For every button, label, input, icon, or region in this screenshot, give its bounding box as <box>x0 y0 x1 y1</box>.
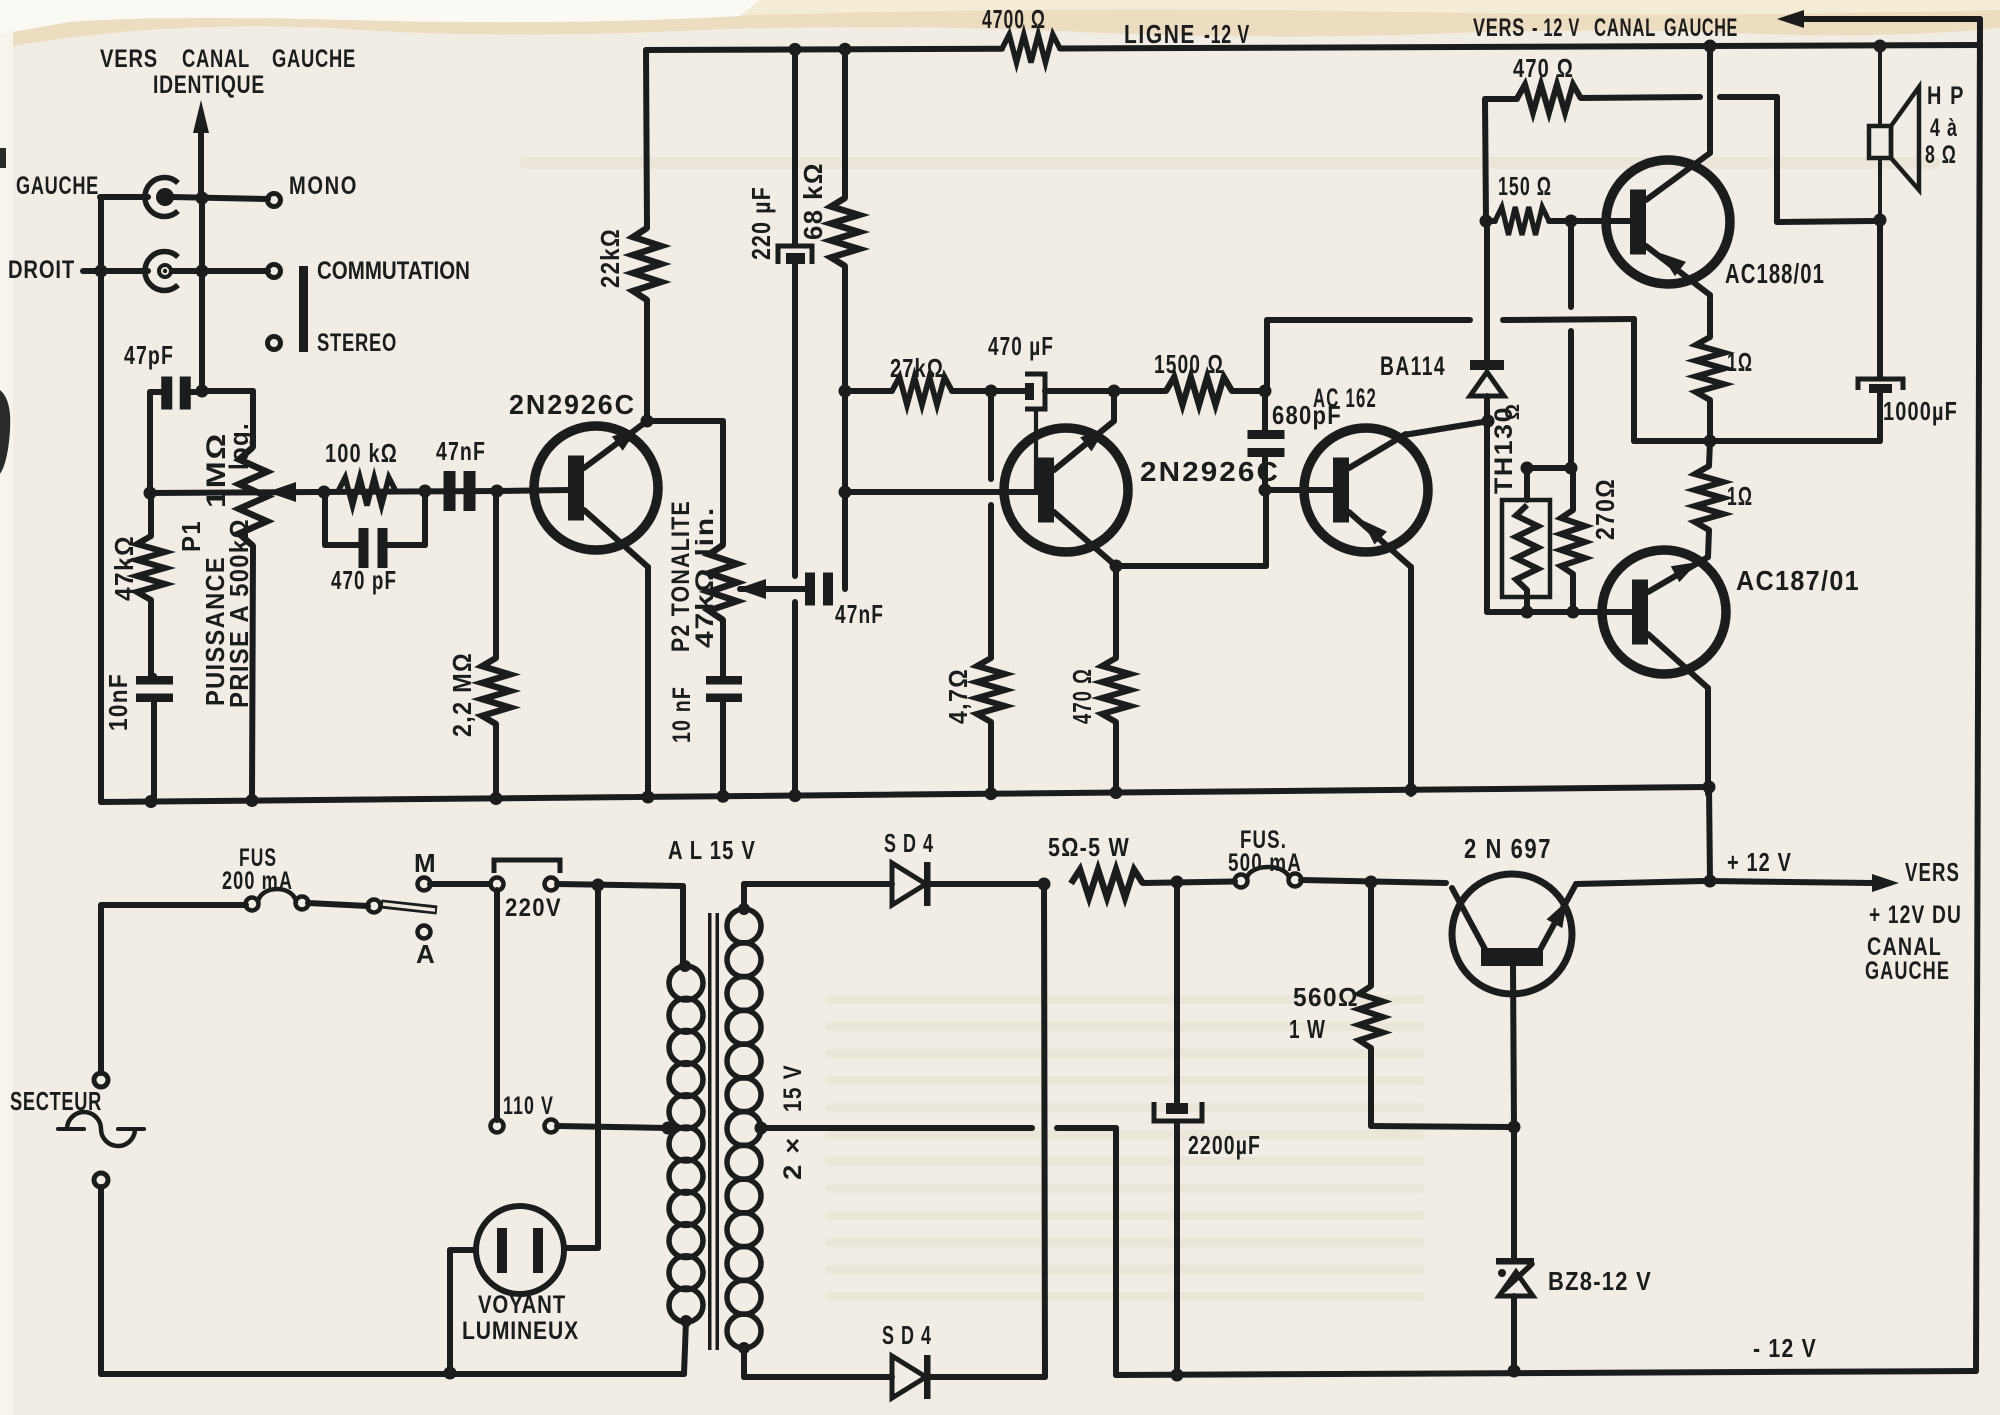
capacitor 470pF <box>325 491 425 595</box>
resistor 2.2M <box>447 491 510 799</box>
wire 2N697 base lead <box>1513 966 1514 1127</box>
label LIGNE -12V <box>1124 19 1250 49</box>
net label VERS CANAL GAUCHE IDENTIQUE <box>100 45 356 99</box>
junction Q2 emitter node <box>1110 560 1123 573</box>
svg-text:S D 4: S D 4 <box>882 1320 932 1350</box>
svg-text:GAUCHE: GAUCHE <box>16 172 99 200</box>
svg-text:H P: H P <box>1927 82 1965 110</box>
svg-text:+ 12 V: + 12 V <box>1727 847 1792 877</box>
label 2x15V <box>779 1064 807 1180</box>
svg-text:BZ8-12 V: BZ8-12 V <box>1548 1266 1652 1296</box>
svg-text:CANAL: CANAL <box>182 45 250 73</box>
junction 100k right <box>419 485 432 498</box>
junction Q1 base node <box>491 485 504 498</box>
resistor 22k <box>595 50 661 300</box>
svg-text:P1: P1 <box>176 520 206 552</box>
wire 27k to 470uF <box>952 388 1025 394</box>
junction +12V node <box>1704 875 1717 888</box>
node GAUCHE input wire <box>16 172 148 272</box>
bus junction 2.2M <box>490 792 503 805</box>
svg-text:470 pF: 470 pF <box>331 565 397 595</box>
wire P1 bottom <box>252 546 253 800</box>
wire rectifier link <box>1044 884 1045 1377</box>
wire zener lead <box>1511 1127 1517 1258</box>
junction bias bottom left <box>1521 606 1534 619</box>
svg-text:BA114: BA114 <box>1380 351 1446 381</box>
svg-text:VERS: VERS <box>100 45 158 73</box>
svg-text:+ 12V DU: + 12V DU <box>1869 901 1962 929</box>
junction MONO wire <box>196 192 209 205</box>
resistor 27k <box>890 353 952 405</box>
junction speaker bottom <box>1874 214 1887 227</box>
junction 2200uF bottom <box>1171 1369 1184 1382</box>
junction Q2 collector top <box>1108 385 1121 398</box>
transistor AC187/01 <box>1602 550 1860 794</box>
svg-text:220 µF: 220 µF <box>746 186 776 260</box>
resistor 4700 <box>982 4 1060 63</box>
junction DROIT-stereo wire <box>196 265 209 278</box>
connector GAUCHE RCA jack <box>145 177 268 216</box>
svg-text:- 12 V: - 12 V <box>1753 1333 1817 1363</box>
svg-text:GAUCHE: GAUCHE <box>1865 957 1950 985</box>
wire main signal line <box>150 491 497 493</box>
wire bias top link <box>1527 465 1571 471</box>
svg-text:1Ω: 1Ω <box>1727 347 1753 377</box>
wire +12V output <box>1710 847 1899 892</box>
junction AC188 base node <box>1565 215 1578 228</box>
svg-text:2200µF: 2200µF <box>1188 1130 1261 1160</box>
wire feedback line <box>1267 319 1634 441</box>
resistor 470 top <box>1485 53 1874 222</box>
svg-text:2N2926C: 2N2926C <box>1140 456 1280 487</box>
net label VERS -12V CANAL GAUCHE <box>1473 14 1738 42</box>
capacitor 47nF tone <box>805 573 884 630</box>
svg-text:GAUCHE: GAUCHE <box>272 45 356 73</box>
capacitor 10nF input <box>103 673 173 801</box>
svg-text:IDENTIQUE: IDENTIQUE <box>153 71 265 99</box>
wire to volume pot top <box>202 391 253 447</box>
svg-text:4700 Ω: 4700 Ω <box>982 4 1046 34</box>
junction primary tap <box>662 1122 675 1135</box>
resistor 560 1W <box>1289 882 1508 1127</box>
resistor 47k <box>109 493 165 676</box>
junction input node <box>196 385 209 398</box>
junction output node <box>1704 435 1717 448</box>
bus junction 47k <box>145 795 158 808</box>
speaker HP <box>1869 46 1965 220</box>
resistor 5ohm 5W <box>1048 832 1235 898</box>
svg-text:10nF: 10nF <box>103 673 133 731</box>
svg-text:VERS: VERS <box>1905 857 1960 887</box>
svg-text:LUMINEUX: LUMINEUX <box>462 1317 579 1345</box>
wire Q1 collector to P2 top <box>647 421 723 545</box>
svg-text:470 µF: 470 µF <box>988 331 1054 361</box>
resistor 270 <box>1561 468 1620 612</box>
junction 68k-27k node <box>839 385 852 398</box>
wire 470uF to 1500 <box>1114 388 1166 394</box>
resistor 100k <box>325 438 398 506</box>
switch commutation bar <box>299 266 308 352</box>
transformer secondary winding <box>727 903 761 1354</box>
junction HP rail <box>1874 40 1887 53</box>
wire input column <box>101 197 202 802</box>
svg-text:Ω: Ω <box>1502 404 1524 420</box>
wire amp ground bus <box>101 787 1709 802</box>
junction 220uF top <box>789 43 802 56</box>
wire Q2 emitter to AC162 base <box>1116 491 1266 566</box>
wire secondary bottom <box>744 1348 892 1377</box>
svg-text:2N2926C: 2N2926C <box>509 389 636 420</box>
capacitor 47nF coupling <box>436 436 486 511</box>
svg-text:100 kΩ: 100 kΩ <box>325 438 398 468</box>
svg-text:470 Ω: 470 Ω <box>1513 53 1574 83</box>
resistor 150 <box>1486 171 1631 235</box>
junction voyant tap <box>592 879 605 892</box>
svg-text:- 12 V: - 12 V <box>1532 14 1580 42</box>
junction zener node <box>1508 1121 1521 1134</box>
lamp VOYANT LUMINEUX <box>450 885 598 1373</box>
svg-text:2 ×: 2 × <box>779 1136 807 1180</box>
svg-text:470 Ω: 470 Ω <box>1067 668 1097 724</box>
wire 27k input line <box>845 388 892 394</box>
selector 110V <box>491 1092 669 1133</box>
svg-text:110 V: 110 V <box>503 1092 554 1120</box>
svg-text:COMMUTATION: COMMUTATION <box>317 257 470 285</box>
fuse FUS 500mA <box>1228 826 1446 888</box>
diode BA114 <box>1380 221 1504 612</box>
svg-text:A: A <box>416 939 436 969</box>
junction wiper node <box>144 487 157 500</box>
symbol secteur AC <box>58 1112 144 1146</box>
potentiometer P1 1M log <box>201 422 296 546</box>
junction 68k top <box>839 43 852 56</box>
junction AC188 collector rail <box>1704 40 1717 53</box>
transistor 2N697 <box>1452 833 1704 994</box>
capacitor 470uF <box>988 331 1114 489</box>
svg-text:STEREO: STEREO <box>317 329 397 357</box>
label P1 PUISSANCE PRISE A 500k <box>176 518 254 708</box>
resistor 470 Q2 <box>1067 566 1130 795</box>
wire secondary top <box>744 884 892 909</box>
resistor 1500 <box>1154 349 1232 405</box>
bus junction Q1 <box>642 791 655 804</box>
wire right edge -12V <box>1976 19 1980 1371</box>
svg-text:1 W: 1 W <box>1289 1014 1326 1044</box>
junction bias top right <box>1565 462 1578 475</box>
junction Q2 base node left <box>839 486 852 499</box>
junction BA114 top node <box>1480 215 1493 228</box>
svg-text:15 V: 15 V <box>779 1064 807 1112</box>
wire 220V to primary <box>680 886 686 966</box>
transistor AC162 <box>1265 383 1489 794</box>
bus junction AC162 <box>1405 783 1418 796</box>
junction AC162 base node <box>1259 484 1272 497</box>
svg-text:270Ω: 270Ω <box>1590 478 1620 540</box>
junction 100k left <box>318 486 331 499</box>
svg-text:M: M <box>414 848 437 878</box>
diode SD4 lower <box>882 1320 1045 1399</box>
wire arrow to left channel <box>193 100 209 198</box>
svg-text:1Ω: 1Ω <box>1727 481 1753 511</box>
svg-text:LIGNE: LIGNE <box>1124 19 1196 49</box>
wire AC188 base drop <box>1568 221 1574 467</box>
capacitor 2200uF <box>1154 882 1261 1375</box>
capacitor 220uF <box>746 49 812 798</box>
svg-text:220V: 220V <box>505 894 562 922</box>
svg-text:47pF: 47pF <box>124 340 174 370</box>
junction bias top left <box>1521 462 1534 475</box>
junction rectifier node <box>1038 878 1051 891</box>
svg-text:-12 V: -12 V <box>1204 19 1250 49</box>
transistor Q2 2N2926C <box>845 391 1280 566</box>
svg-text:47nF: 47nF <box>835 599 884 629</box>
svg-text:47nF: 47nF <box>436 436 486 466</box>
net label SECTEUR <box>10 1086 102 1116</box>
diode SD4 upper <box>884 828 1044 906</box>
resistor 1ohm upper <box>1696 337 1753 441</box>
junction zener bottom <box>1508 1365 1521 1378</box>
selector 220V <box>491 860 684 1120</box>
junction 560 top <box>1365 876 1378 889</box>
connector DROIT RCA jack <box>145 252 268 291</box>
bus junction P1 <box>246 794 259 807</box>
wire Q1 emitter down <box>645 567 651 799</box>
junction Q1 collector node <box>641 415 654 428</box>
svg-text:CANAL: CANAL <box>1594 14 1656 42</box>
capacitor 47pF <box>124 340 203 493</box>
transistor AC188/01 <box>1606 46 1825 295</box>
bus junction 220uF <box>789 789 802 802</box>
svg-text:log.: log. <box>224 422 254 470</box>
junction 4.7ohm top <box>985 385 998 398</box>
svg-text:2,2 MΩ: 2,2 MΩ <box>447 652 477 737</box>
junction 1500-680pF node <box>1259 385 1272 398</box>
wire VERS -12V arrow <box>1777 10 1980 28</box>
junction left input bus <box>95 265 108 278</box>
wire -12V bottom rail <box>1116 1333 1976 1375</box>
wire Q1 collector to 22k <box>644 300 650 421</box>
svg-text:VERS: VERS <box>1473 14 1525 42</box>
svg-text:2 N 697: 2 N 697 <box>1464 833 1552 864</box>
bus junction 4.7 <box>985 787 998 800</box>
switch M/A <box>368 848 491 969</box>
svg-text:DROIT: DROIT <box>8 256 75 284</box>
resistor 1ohm lower <box>1695 441 1753 557</box>
svg-text:5Ω-5 W: 5Ω-5 W <box>1048 832 1130 862</box>
junction voyant return <box>444 1367 457 1380</box>
svg-text:68 kΩ: 68 kΩ <box>798 162 828 240</box>
resistor 4.7ohm <box>943 391 1005 797</box>
svg-text:1000µF: 1000µF <box>1883 396 1958 426</box>
svg-text:4 à: 4 à <box>1930 114 1958 142</box>
resistor 68k <box>798 49 859 589</box>
fuse FUS 200mA <box>222 844 368 911</box>
potentiometer P2 tonalite 47k lin <box>667 500 805 652</box>
bus junction 10nF <box>717 790 730 803</box>
transformer core <box>708 913 719 1350</box>
wire AC188 emitter column <box>1707 295 1713 337</box>
wire output rail <box>1634 438 1880 444</box>
bus junction output <box>1703 781 1716 794</box>
junction secondary tap <box>755 1122 768 1135</box>
svg-text:150 Ω: 150 Ω <box>1498 171 1552 201</box>
wire secteur to fuse <box>101 905 246 1073</box>
wire top rail LIGNE -12V <box>646 45 1980 50</box>
svg-text:S D 4: S D 4 <box>884 828 934 858</box>
junction BA114-AC162 node <box>1482 415 1495 428</box>
svg-text:4,7Ω: 4,7Ω <box>943 668 973 724</box>
capacitor 680pF <box>1248 391 1343 490</box>
wire center tap <box>761 1128 1116 1375</box>
bus junction 470 <box>1110 786 1123 799</box>
terminal MONO <box>268 172 359 207</box>
thermistor TH130 <box>1490 404 1550 612</box>
net label VERS +12V DU CANAL GAUCHE <box>1865 857 1962 985</box>
svg-text:A L 15 V: A L 15 V <box>668 835 756 865</box>
svg-text:AC 162: AC 162 <box>1313 383 1377 413</box>
junction bias bottom right <box>1567 606 1580 619</box>
wire primary bottom return <box>101 1187 686 1374</box>
capacitor 10nF tone <box>668 620 742 799</box>
transistor Q1 2N2926C <box>497 389 658 567</box>
node DROIT input wire <box>8 256 148 284</box>
wire bias bottom line <box>1487 609 1633 615</box>
svg-text:8 Ω: 8 Ω <box>1925 141 1957 169</box>
terminal STEREO <box>268 329 398 357</box>
svg-text:560Ω: 560Ω <box>1293 982 1359 1012</box>
wire bus to +12V <box>1709 787 1710 881</box>
wire 470-150 link <box>1485 99 1486 221</box>
capacitor 1000uF <box>1858 220 1958 441</box>
wire 1500 to node <box>1232 388 1265 394</box>
diode zener BZ8-12V <box>1496 1258 1652 1371</box>
junction 2200uF top <box>1171 876 1184 889</box>
svg-text:10 nF: 10 nF <box>668 686 696 743</box>
svg-text:GAUCHE: GAUCHE <box>1664 14 1738 42</box>
terminal secteur upper <box>94 1073 108 1087</box>
svg-text:AC188/01: AC188/01 <box>1725 258 1825 289</box>
terminal COMMUTATION <box>268 257 471 285</box>
svg-text:22kΩ: 22kΩ <box>595 228 625 288</box>
transformer primary winding <box>669 960 703 1327</box>
terminal secteur lower <box>94 1173 108 1187</box>
svg-text:MONO: MONO <box>289 172 358 200</box>
label transformer AL15V <box>668 835 756 865</box>
svg-text:AC187/01: AC187/01 <box>1736 565 1860 596</box>
